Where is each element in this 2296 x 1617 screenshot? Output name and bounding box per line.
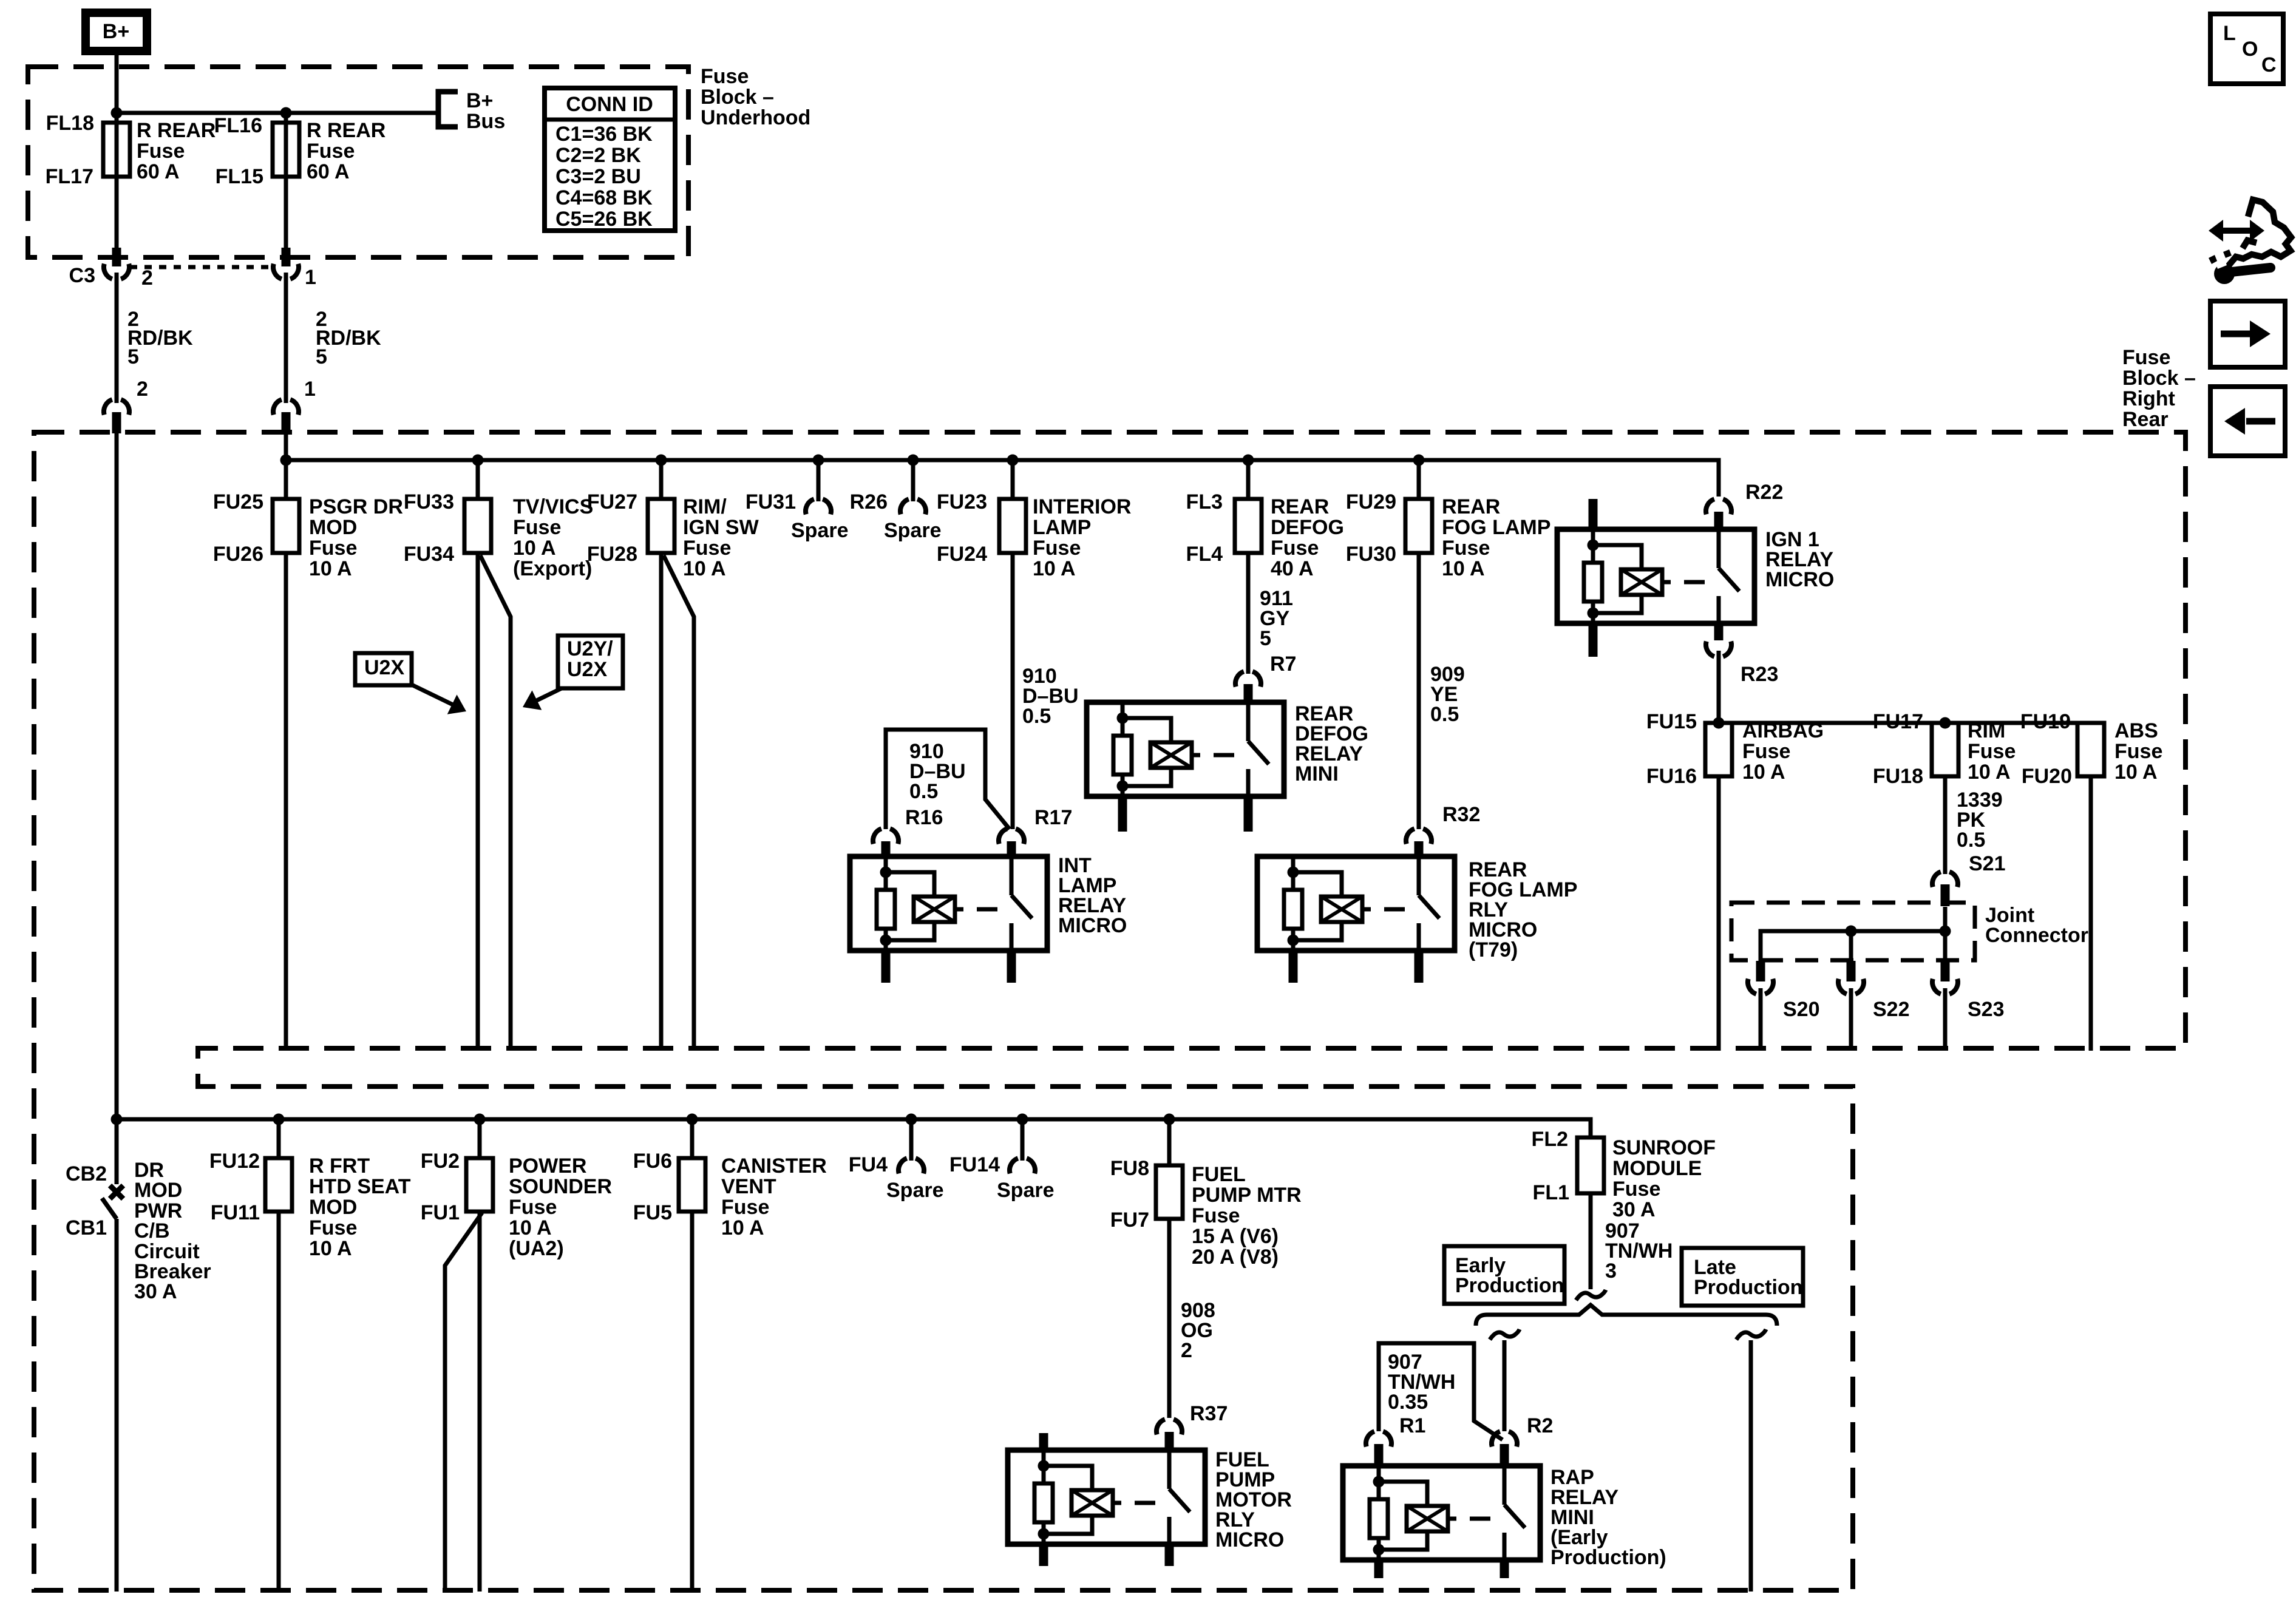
relay FUEL PUMP MOTOR RLY MICRO suppression resistor — [1034, 1483, 1053, 1522]
svg-text:B+: B+ — [103, 20, 129, 43]
node junction bus x=1504 — [908, 455, 919, 466]
wire 908 OG 2 — [1167, 1219, 1172, 1418]
CONN ID table — [545, 88, 675, 231]
relay REAR FOG LAMP RLY MICRO (T79) coil-armature link — [1362, 907, 1371, 912]
relay IGN 1 RELAY MICRO suppression resistor — [1584, 563, 1602, 602]
connector C3 pin 2 (cup) — [112, 248, 121, 266]
relay IGN 1 RELAY MICRO switch — [1717, 529, 1721, 568]
svg-text:10 A: 10 A — [1742, 761, 1785, 784]
fuse FU2/FU1 POWER SOUNDER 10 A (UA2) — [478, 1119, 482, 1158]
svg-text:Fuse: Fuse — [1612, 1178, 1660, 1201]
relay REAR DEFOG RELAY MINI switch — [1246, 702, 1251, 741]
svg-text:Fuse: Fuse — [2122, 346, 2170, 369]
node junction bus x=2337 — [1413, 455, 1425, 466]
svg-text:R2: R2 — [1527, 1414, 1553, 1437]
wire FU34 branch jog — [480, 555, 511, 1051]
svg-text:MOD: MOD — [309, 516, 357, 539]
node junction bottom bus x=459 — [273, 1114, 285, 1125]
wire 910 D-BU 0.5 jog to R16 — [886, 730, 1010, 829]
svg-text:FU1: FU1 — [421, 1201, 460, 1224]
svg-text:10 A: 10 A — [683, 557, 726, 580]
svg-text:MOD: MOD — [134, 1179, 182, 1202]
svg-text:U2X: U2X — [364, 656, 404, 679]
svg-text:VENT: VENT — [721, 1175, 776, 1198]
fusible link FL2/FL1 SUNROOF MODULE 30 A — [1577, 1137, 1604, 1193]
svg-text:C: C — [2261, 53, 2277, 76]
callout box Early Production — [1444, 1246, 1564, 1304]
node junction bottom bus x=790 — [474, 1114, 486, 1125]
LOC reference box — [2210, 14, 2283, 84]
relay IGN 1 coil top stub — [1589, 499, 1598, 529]
svg-text:FU33: FU33 — [404, 490, 454, 514]
svg-text:Fuse: Fuse — [1968, 740, 2016, 763]
svg-text:FU24: FU24 — [937, 543, 987, 566]
svg-text:ABS: ABS — [2114, 719, 2158, 742]
svg-text:C1=36 BK: C1=36 BK — [555, 123, 653, 146]
svg-text:C/B: C/B — [134, 1219, 170, 1242]
node junction bottom bus x=1684 — [1017, 1114, 1028, 1125]
relay REAR DEFOG RELAY MINI coil branch — [1121, 702, 1125, 736]
node junction bottom bus x=192 — [111, 1114, 123, 1125]
connector R23 — [1706, 642, 1731, 657]
late production branch hook — [1736, 1329, 1766, 1340]
relay IGN 1 RELAY MICRO coil-armature link — [1662, 580, 1671, 585]
svg-text:FU7: FU7 — [1110, 1209, 1149, 1232]
relay FUEL PUMP MOTOR RLY MICRO switch — [1167, 1450, 1172, 1489]
svg-text:RIM/: RIM/ — [683, 495, 727, 518]
svg-text:FL16: FL16 — [214, 114, 262, 137]
node junction FL16 — [280, 107, 292, 119]
wire 910 D-BU 0.5 to R17 — [1011, 553, 1015, 829]
wire pin1 down to middle bus — [284, 433, 288, 460]
fuse FU33/FU34 TV/VICS 10 A (Export) — [476, 460, 480, 499]
wire early production branch to R2 — [1503, 1340, 1507, 1431]
node junction S22 — [1846, 926, 1857, 937]
relay REAR FOG LAMP RLY MICRO (T79) box — [1257, 856, 1455, 951]
node junction bus x=1668 — [1007, 455, 1019, 466]
svg-text:R7: R7 — [1270, 653, 1296, 676]
callout arrow U2Y/U2X — [537, 688, 562, 700]
svg-text:Fuse: Fuse — [701, 65, 749, 88]
svg-text:Spare: Spare — [886, 1179, 944, 1202]
connector S20 — [1756, 961, 1765, 981]
svg-text:Fuse: Fuse — [309, 537, 357, 560]
connector C3 pin 1 (cup) — [282, 248, 291, 266]
svg-text:Fuse: Fuse — [307, 140, 355, 163]
svg-text:MICRO: MICRO — [1058, 914, 1127, 937]
svg-text:O: O — [2242, 38, 2258, 61]
svg-text:FU4: FU4 — [849, 1153, 888, 1176]
svg-text:FUEL: FUEL — [1192, 1163, 1246, 1186]
svg-text:FU15: FU15 — [1646, 710, 1697, 733]
relay RAP RELAY MINI (Early Production) coil (X-box) — [1407, 1506, 1448, 1531]
svg-text:R23: R23 — [1741, 663, 1778, 686]
svg-text:LAMP: LAMP — [1033, 516, 1091, 539]
svg-text:TV/VICS: TV/VICS — [513, 495, 593, 518]
fuse FU8/FU7 FUEL PUMP MTR 15 A (V6) / 20 A (V8) — [1167, 1119, 1172, 1165]
svg-text:SUNROOF: SUNROOF — [1612, 1136, 1716, 1159]
wire label 2 RD/BK 5 (left) — [115, 273, 119, 403]
relay FUEL PUMP coil top stub — [1039, 1433, 1048, 1450]
spare cavity FU4 — [909, 1119, 914, 1161]
svg-text:FU14: FU14 — [949, 1153, 1000, 1176]
svg-text:Fuse: Fuse — [683, 537, 731, 560]
relay INT LAMP RELAY MICRO box — [850, 856, 1047, 951]
wire late production branch — [1749, 1340, 1753, 1592]
svg-text:Production): Production) — [1550, 1546, 1666, 1569]
relay INT LAMP RELAY MICRO coil loop — [886, 872, 934, 940]
wire 1339 PK 0.5 — [1943, 776, 1948, 874]
svg-text:S22: S22 — [1873, 998, 1910, 1021]
svg-text:5: 5 — [316, 345, 327, 368]
svg-text:Production: Production — [1694, 1276, 1802, 1299]
fuse FU12/FU11 R FRT HTD SEAT MOD 10 A — [277, 1119, 281, 1158]
fuse FU17/FU18 RIM 10 A — [1932, 723, 1958, 776]
svg-text:Rear: Rear — [2122, 408, 2169, 431]
svg-text:R FRT: R FRT — [309, 1154, 370, 1178]
svg-text:MINI: MINI — [1295, 762, 1339, 785]
wire FU28 branch jog — [664, 555, 694, 1051]
fuse FU15/FU16 AIRBAG 10 A — [1705, 723, 1732, 776]
svg-text:FL4: FL4 — [1186, 543, 1223, 566]
svg-text:5: 5 — [1260, 627, 1271, 650]
callout arrow U2X — [412, 685, 453, 705]
fuse FU6/FU5 CANISTER VENT 10 A — [690, 1119, 695, 1158]
svg-text:MODULE: MODULE — [1612, 1157, 1702, 1180]
svg-text:L: L — [2223, 22, 2236, 45]
svg-text:FU26: FU26 — [213, 543, 263, 566]
forward arrow box — [2210, 301, 2285, 367]
svg-text:FU29: FU29 — [1346, 490, 1396, 514]
connector S22 — [1847, 961, 1856, 981]
svg-text:Connector: Connector — [1985, 924, 2088, 947]
svg-text:R37: R37 — [1190, 1402, 1228, 1425]
svg-text:Spare: Spare — [791, 519, 849, 542]
svg-text:Block –: Block – — [2122, 367, 2196, 390]
svg-text:Production: Production — [1455, 1274, 1564, 1297]
svg-text:Fuse: Fuse — [1742, 740, 1790, 763]
relay IGN 1 RELAY MICRO coil branch — [1591, 529, 1595, 563]
svg-text:0.5: 0.5 — [1957, 829, 1985, 852]
node junction S21/S23 — [1940, 926, 1951, 937]
svg-text:CANISTER: CANISTER — [721, 1154, 827, 1178]
node junction bus x=787 — [472, 455, 484, 466]
production split brace — [1476, 1305, 1777, 1326]
service manual hand icon outline — [2220, 200, 2291, 268]
svg-text:SOUNDER: SOUNDER — [509, 1175, 612, 1198]
svg-text:Fuse: Fuse — [309, 1216, 357, 1239]
svg-text:R1: R1 — [1399, 1414, 1425, 1437]
svg-text:FL15: FL15 — [216, 165, 263, 188]
spare cavity FU31 — [817, 460, 821, 501]
svg-text:FU23: FU23 — [937, 490, 987, 514]
svg-text:30 A: 30 A — [134, 1280, 177, 1303]
svg-text:INTERIOR: INTERIOR — [1033, 495, 1131, 518]
relay INT LAMP RELAY MICRO coil (X-box) — [914, 897, 955, 922]
relay REAR DEFOG RELAY MINI coil (X-box) — [1150, 742, 1192, 768]
svg-text:R16: R16 — [905, 806, 943, 829]
svg-text:C3: C3 — [69, 264, 95, 287]
relay REAR FOG LAMP RLY MICRO (T79) switch — [1417, 856, 1421, 895]
svg-text:1: 1 — [305, 266, 316, 289]
svg-text:0.5: 0.5 — [909, 780, 938, 803]
svg-text:S23: S23 — [1968, 998, 2005, 1021]
svg-text:B+: B+ — [466, 89, 493, 112]
fuse FL3/FL4 REAR DEFOG 40 A — [1246, 460, 1251, 499]
svg-text:Fuse: Fuse — [2114, 740, 2162, 763]
svg-text:CB2: CB2 — [66, 1162, 107, 1185]
wire B+ down to FL18 fuse — [115, 52, 119, 249]
relay IGN 1 coil bottom stub — [1589, 623, 1598, 657]
spare cavity R26 — [911, 460, 915, 501]
svg-text:Fuse: Fuse — [513, 516, 561, 539]
relay IGN 1 RELAY MICRO box — [1557, 529, 1754, 623]
node junction bottom bus x=1140 — [687, 1114, 698, 1125]
bottom feed bus — [117, 1119, 1591, 1137]
svg-text:Underhood: Underhood — [701, 106, 810, 129]
relay IGN 1 RELAY MICRO coil (X-box) — [1621, 569, 1662, 595]
node junction bus x=1089 — [656, 455, 667, 466]
svg-text:FU17: FU17 — [1873, 710, 1923, 733]
wire label 2 RD/BK 5 (right) — [284, 273, 288, 403]
relay FUEL PUMP MOTOR RLY MICRO coil-armature link — [1113, 1501, 1121, 1505]
wire 907 TN/WH 3 — [1589, 1193, 1593, 1289]
relay FUEL PUMP MOTOR RLY MICRO coil loop — [1044, 1466, 1092, 1534]
svg-text:FL17: FL17 — [46, 165, 93, 188]
svg-text:FU16: FU16 — [1646, 765, 1697, 788]
svg-text:PUMP MTR: PUMP MTR — [1192, 1184, 1302, 1207]
svg-text:0.35: 0.35 — [1388, 1391, 1428, 1414]
node junction bottom bus x=1501 — [906, 1114, 917, 1125]
svg-text:FU20: FU20 — [2022, 765, 2072, 788]
relay RAP RELAY MINI (Early Production) switch — [1503, 1466, 1507, 1505]
fusible link FL18/FL17 R REAR Fuse 60 A — [103, 123, 130, 177]
svg-text:Fuse: Fuse — [721, 1196, 769, 1219]
svg-text:40 A: 40 A — [1271, 557, 1314, 580]
relay REAR FOG LAMP bottom stubs — [1289, 951, 1298, 983]
wire 907 TN/WH 0.35 jog to R1 — [1379, 1343, 1503, 1440]
svg-text:MICRO: MICRO — [1215, 1528, 1284, 1551]
relay FUEL PUMP MOTOR RLY MICRO coil (X-box) — [1072, 1490, 1113, 1516]
svg-text:10 A: 10 A — [2114, 761, 2158, 784]
svg-text:U2Y/: U2Y/ — [567, 637, 613, 660]
fuse FU27/FU28 RIM/IGN SW 10 A — [659, 460, 664, 499]
svg-text:10 A: 10 A — [1968, 761, 2011, 784]
C3 connector dotted tie line — [130, 265, 273, 269]
wire FU1 branch jog — [445, 1213, 482, 1592]
svg-text:Spare: Spare — [997, 1179, 1055, 1202]
fuse FU19/FU20 ABS 10 A — [2077, 723, 2104, 776]
svg-text:Fuse: Fuse — [1442, 537, 1490, 560]
svg-text:Fuse: Fuse — [1033, 537, 1081, 560]
svg-text:Fuse: Fuse — [1192, 1204, 1240, 1227]
fusible link FL16/FL15 R REAR Fuse 60 A — [273, 123, 299, 177]
callout box U2X — [355, 653, 412, 685]
relay IGN 1 RELAY MICRO coil loop — [1593, 545, 1642, 613]
svg-text:FU30: FU30 — [1346, 543, 1396, 566]
relay REAR DEFOG RELAY MINI coil loop — [1123, 718, 1171, 786]
fuse FU29/FU30 REAR FOG LAMP 10 A — [1417, 460, 1421, 499]
svg-text:C3=2 BU: C3=2 BU — [555, 165, 641, 188]
svg-text:10 A: 10 A — [509, 1216, 552, 1239]
relay FUEL PUMP MOTOR RLY MICRO box — [1008, 1450, 1205, 1544]
wire 911 GY 5 — [1246, 553, 1251, 674]
svg-text:FU12: FU12 — [209, 1150, 260, 1173]
svg-text:FU19: FU19 — [2020, 710, 2071, 733]
svg-text:1: 1 — [304, 378, 316, 401]
svg-text:C2=2 BK: C2=2 BK — [555, 144, 641, 167]
svg-text:CB1: CB1 — [66, 1216, 107, 1239]
svg-text:FU6: FU6 — [633, 1150, 672, 1173]
relay INT LAMP RELAY MICRO coil branch — [884, 856, 888, 890]
svg-text:FU25: FU25 — [213, 490, 263, 514]
svg-text:2: 2 — [1181, 1339, 1192, 1362]
svg-text:10 A: 10 A — [721, 1216, 764, 1239]
svg-text:C5=26 BK: C5=26 BK — [555, 208, 653, 231]
R23 distribution rail — [1719, 721, 2091, 725]
relay REAR FOG LAMP RLY MICRO (T79) coil (X-box) — [1321, 897, 1362, 922]
svg-text:0.5: 0.5 — [1022, 705, 1051, 728]
relay INT LAMP bottom stubs — [881, 951, 891, 983]
svg-text:10 A: 10 A — [1442, 557, 1485, 580]
svg-text:R26: R26 — [850, 490, 888, 514]
relay REAR DEFOG RELAY MINI coil-armature link — [1192, 753, 1200, 758]
svg-text:FU2: FU2 — [421, 1150, 460, 1173]
svg-text:10 A: 10 A — [309, 1237, 352, 1260]
relay FUEL PUMP MOTOR RLY MICRO coil branch — [1042, 1450, 1046, 1483]
wire FL16 column — [284, 113, 288, 249]
svg-text:R22: R22 — [1745, 481, 1783, 504]
svg-text:REAR: REAR — [1271, 495, 1329, 518]
svg-text:10 A: 10 A — [309, 557, 352, 580]
svg-text:60 A: 60 A — [307, 160, 350, 183]
node junction bus x=2056 — [1243, 455, 1254, 466]
svg-text:AIRBAG: AIRBAG — [1742, 719, 1824, 742]
svg-text:POWER: POWER — [509, 1154, 586, 1178]
relay RAP RELAY MINI (Early Production) coil loop — [1379, 1482, 1427, 1550]
fuse FU23/FU24 INTERIOR LAMP 10 A — [1011, 460, 1015, 499]
svg-text:RIM: RIM — [1968, 719, 2005, 742]
svg-text:FL18: FL18 — [46, 112, 94, 135]
svg-text:R REAR: R REAR — [137, 119, 216, 142]
svg-text:2: 2 — [137, 378, 148, 401]
svg-text:IGN SW: IGN SW — [683, 516, 759, 539]
relay INT LAMP RELAY MICRO switch — [1010, 856, 1014, 895]
B+ Bus terminal bracket — [438, 92, 458, 127]
relay REAR FOG LAMP RLY MICRO (T79) coil loop — [1293, 872, 1342, 940]
svg-text:(UA2): (UA2) — [509, 1237, 564, 1260]
svg-text:FL2: FL2 — [1532, 1128, 1568, 1151]
svg-text:DEFOG: DEFOG — [1271, 516, 1344, 539]
svg-text:FOG LAMP: FOG LAMP — [1442, 516, 1550, 539]
relay REAR FOG LAMP RLY MICRO (T79) suppression resistor — [1284, 890, 1302, 929]
wire 909 YE 0.5 — [1417, 553, 1421, 829]
svg-text:S20: S20 — [1783, 998, 1820, 1021]
back arrow box — [2210, 387, 2285, 456]
svg-text:C4=68 BK: C4=68 BK — [555, 186, 653, 209]
callout box U2Y/U2X — [558, 636, 623, 688]
svg-text:Block –: Block – — [701, 86, 774, 109]
joint connector internal rail — [1761, 931, 1945, 961]
relay RAP RELAY MINI (Early Production) suppression resistor — [1370, 1499, 1388, 1538]
svg-text:60 A: 60 A — [137, 160, 180, 183]
relay RAP RELAY MINI (Early Production) coil-armature link — [1448, 1517, 1456, 1521]
svg-text:15 A (V6): 15 A (V6) — [1192, 1225, 1279, 1248]
svg-text:MOD: MOD — [309, 1196, 357, 1219]
svg-text:FU31: FU31 — [746, 490, 796, 514]
service manual hand icon double arrow — [2222, 228, 2251, 234]
Joint Connector dashed box — [1731, 903, 1975, 960]
svg-text:FU11: FU11 — [211, 1201, 260, 1224]
svg-text:R REAR: R REAR — [307, 119, 385, 142]
svg-text:R17: R17 — [1034, 806, 1072, 829]
Fuse Block - Underhood dashed boundary — [28, 67, 688, 257]
relay REAR DEFOG RELAY MINI suppression resistor — [1113, 736, 1132, 775]
svg-text:FL3: FL3 — [1186, 490, 1223, 514]
relay IGN 1 switch output stub — [1714, 623, 1724, 640]
node junction R23/AIRBAG — [1713, 717, 1725, 729]
node junction bus x=1348 — [813, 455, 824, 466]
relay REAR DEFOG bottom stubs — [1118, 796, 1127, 832]
svg-text:Spare: Spare — [884, 519, 942, 542]
svg-text:Fuse: Fuse — [137, 140, 185, 163]
svg-text:(T79): (T79) — [1469, 938, 1518, 961]
circuit breaker CB2/CB1 DR MOD PWR C/B 30 A — [115, 1119, 119, 1184]
svg-text:FU34: FU34 — [404, 543, 454, 566]
top B+ bus wire — [117, 111, 438, 115]
svg-text:REAR: REAR — [1442, 495, 1500, 518]
node junction bottom bus x=1926 — [1164, 1114, 1175, 1125]
svg-text:Bus: Bus — [466, 110, 505, 133]
svg-text:FU8: FU8 — [1110, 1157, 1149, 1180]
service manual wrench icon — [2214, 263, 2235, 284]
fuse FU25/FU26 PSGR DR MOD 10 A — [284, 460, 288, 499]
early production branch hook — [1490, 1329, 1520, 1340]
B+ power terminal box — [86, 13, 147, 51]
Fuse Block - Right Rear dashed boundary (middle and bottom blocks) — [34, 432, 2186, 1590]
wire left column pin2 down to bottom bus — [115, 433, 119, 1119]
relay FUEL PUMP bottom stubs — [1039, 1544, 1048, 1566]
connector S23 — [1941, 961, 1950, 981]
relay RAP RELAY MINI (Early Production) box — [1343, 1466, 1540, 1560]
relay RAP RELAY MINI (Early Production) coil branch — [1377, 1466, 1381, 1499]
svg-text:20 A (V8): 20 A (V8) — [1192, 1246, 1279, 1269]
spare cavity FU14 — [1021, 1119, 1025, 1161]
svg-text:FU27: FU27 — [587, 490, 637, 514]
svg-text:FU28: FU28 — [587, 543, 637, 566]
svg-text:0.5: 0.5 — [1430, 703, 1459, 726]
svg-text:(Export): (Export) — [513, 557, 592, 580]
svg-text:S21: S21 — [1969, 852, 2006, 875]
svg-text:Fuse: Fuse — [509, 1196, 557, 1219]
node junction bus x=471 — [280, 455, 292, 466]
svg-text:2: 2 — [141, 266, 153, 290]
svg-text:PSGR DR: PSGR DR — [309, 495, 403, 518]
svg-text:MICRO: MICRO — [1765, 568, 1834, 591]
svg-text:5: 5 — [127, 345, 139, 368]
relay RAP bottom stubs — [1374, 1560, 1384, 1578]
svg-text:30 A: 30 A — [1612, 1198, 1656, 1221]
svg-text:FU18: FU18 — [1873, 765, 1923, 788]
svg-text:CONN ID: CONN ID — [566, 93, 653, 116]
relay INT LAMP RELAY MICRO coil-armature link — [955, 907, 963, 912]
node junction B+ / FL18 — [111, 107, 123, 119]
svg-text:FU5: FU5 — [633, 1201, 672, 1224]
svg-text:Fuse: Fuse — [1271, 537, 1319, 560]
svg-text:Right: Right — [2122, 387, 2175, 410]
relay REAR DEFOG RELAY MINI box — [1087, 702, 1284, 796]
relay REAR FOG LAMP RLY MICRO (T79) coil branch — [1291, 856, 1296, 890]
